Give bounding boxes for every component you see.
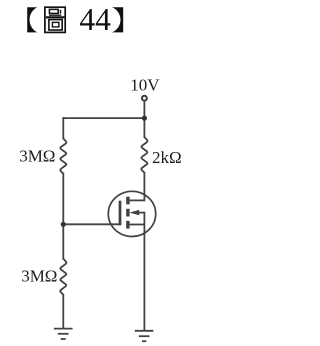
wire: terminal to top rail: [143, 101, 145, 118]
title bracket left 【: [27, 7, 37, 32]
wire: right branch to 2k resistor: [143, 118, 145, 137]
Q1 drain stub: [130, 199, 145, 201]
junction dot at gate / divider node: [61, 222, 66, 227]
svg-text:10V: 10V: [130, 76, 160, 95]
wire: 2k resistor to MOSFET drain: [143, 173, 145, 201]
Q1 body stub: [136, 212, 144, 214]
wire: MOSFET source down to right ground: [143, 213, 145, 331]
resistor R2 3M ohm zigzag: [60, 259, 66, 295]
transistor Q1 N-MOSFET body circle: [108, 191, 155, 236]
wire: left branch down to R1: [62, 118, 64, 138]
wire: top rail horizontal: [63, 117, 144, 119]
ground right: [135, 331, 154, 341]
terminal (10V supply node): [142, 96, 147, 101]
title bracket right 】: [112, 7, 123, 32]
wire: R1 to R2 (through gate node): [62, 174, 64, 259]
svg-text:44: 44: [79, 2, 111, 37]
Q1 channel segment source side: [126, 221, 129, 229]
Q1 channel segment drain side: [126, 197, 129, 205]
junction dot at top rail / drain branch: [142, 116, 147, 121]
resistor R1 3M ohm zigzag: [60, 138, 66, 173]
Q1 gate bar: [119, 201, 122, 226]
wire: gate lead from divider node: [63, 223, 118, 225]
resistor R3 2k ohm zigzag: [141, 137, 147, 173]
Q1 body arrow: [130, 210, 140, 215]
Q1 source stub: [130, 224, 145, 226]
wire: R2 to left ground: [62, 295, 64, 329]
svg-text:3MΩ: 3MΩ: [19, 146, 55, 165]
ground left: [54, 329, 73, 339]
svg-text:2kΩ: 2kΩ: [152, 148, 182, 167]
svg-text:3MΩ: 3MΩ: [21, 267, 57, 286]
Q1 channel segment body: [126, 209, 129, 217]
title glyph 圖 (figure) drawn as strokes: [45, 7, 65, 32]
